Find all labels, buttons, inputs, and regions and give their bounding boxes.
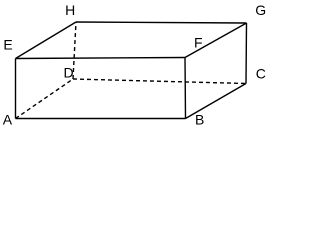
edge AB (bottom front) [16,118,186,120]
edge EH (back-left slant) [16,22,77,59]
edge BF (right front vertical) [184,58,187,119]
edge FG (top right slant) [185,23,247,58]
edge BC (bottom right slant) [186,84,247,119]
svg-text:D: D [64,65,74,81]
hidden edge DH (dashed) [73,22,76,79]
edge AE (left vertical) [15,59,17,119]
edge HG (top back) [76,22,247,23]
svg-text:H: H [65,2,75,18]
svg-text:G: G [255,2,266,18]
svg-text:F: F [194,35,203,51]
hidden edge AD (dashed) [16,79,74,119]
svg-text:B: B [195,112,204,128]
edge EF (top front) [16,58,186,59]
svg-text:A: A [3,111,13,127]
svg-text:C: C [256,66,266,82]
edge GC (right back vertical) [245,23,248,84]
svg-text:E: E [3,37,12,53]
hidden edge DC (dashed) [73,79,246,84]
